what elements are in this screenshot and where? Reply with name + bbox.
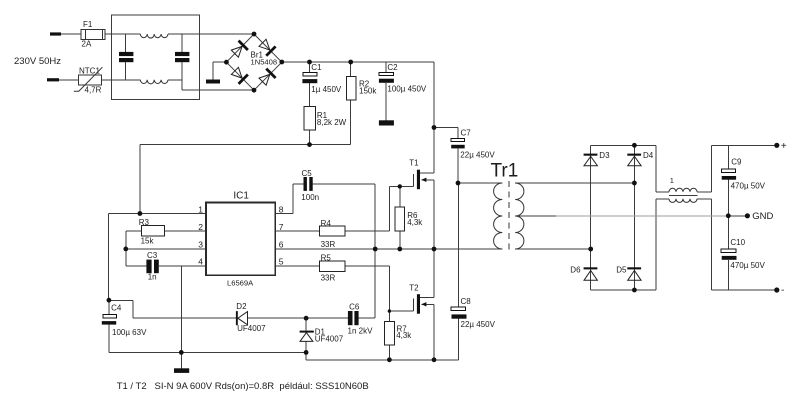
svg-text:C6: C6: [349, 303, 360, 312]
svg-text:230V 50Hz: 230V 50Hz: [14, 56, 61, 67]
node bridge right: [279, 60, 284, 65]
svg-text:1N5408: 1N5408: [251, 57, 278, 66]
wire primary gnd rail: [109, 351, 306, 353]
capacitor C2: [379, 72, 393, 75]
wire minus rail: [591, 289, 656, 291]
wire pin2 row: [165, 230, 206, 232]
wire plus rail: [591, 144, 656, 146]
wire C1 R1 branch: [309, 62, 311, 73]
wire center tap gray part: [556, 215, 728, 217]
wire mains bottom row: [59, 79, 78, 81]
wire secondary rect strings: [590, 145, 592, 290]
wire C4 stem: [108, 300, 110, 314]
svg-text:2A: 2A: [82, 40, 92, 49]
node midpoint: [432, 247, 437, 252]
diode bridge lower-left: [230, 66, 248, 84]
EMI filter box: [112, 15, 200, 100]
wire choke leads: [656, 191, 669, 193]
node gate R6: [398, 184, 402, 188]
wire pin6 row / half-bridge midpoint: [275, 248, 502, 250]
svg-text:8,2k 2W: 8,2k 2W: [317, 118, 347, 127]
fuse F1: [81, 30, 105, 40]
svg-text:L6569A: L6569A: [227, 278, 254, 287]
node pin6 C5 riser: [373, 247, 378, 252]
node Vcc R1: [307, 142, 312, 147]
svg-text:C9: C9: [731, 157, 742, 166]
resistor R7: [385, 321, 395, 345]
wire T2 drain source: [420, 296, 434, 298]
wire C10 stem: [727, 216, 729, 249]
wire gnd symbol stem: [180, 352, 182, 368]
node pin1: [138, 211, 143, 216]
wire center tap black part: [515, 215, 556, 217]
svg-text:6: 6: [279, 239, 284, 249]
wire pin3 row: [126, 248, 206, 250]
diode D2: [236, 311, 248, 325]
svg-text:100n: 100n: [301, 193, 319, 202]
transformer primary winding: [494, 183, 503, 249]
wire pin5 row: [275, 265, 319, 267]
wire pin1 row: [109, 213, 206, 215]
svg-text:R5: R5: [321, 254, 332, 263]
capacitor C1: [303, 73, 317, 76]
diode bridge upper-left: [230, 41, 248, 59]
svg-text:UF4007: UF4007: [237, 324, 266, 333]
svg-text:R4: R4: [321, 219, 332, 228]
inductor choke winding 2: [669, 199, 697, 203]
IC1 box: [206, 203, 275, 276]
svg-text:100µ 450V: 100µ 450V: [387, 85, 427, 94]
svg-text:15k: 15k: [141, 237, 155, 246]
ground bar mains: [206, 80, 220, 84]
svg-text:NTC1: NTC1: [79, 66, 100, 75]
node gnd row C9 C10: [726, 213, 731, 218]
wire R2 branch: [350, 62, 352, 76]
svg-text:150k: 150k: [359, 86, 377, 95]
node D3 string bottom row: [588, 247, 593, 252]
svg-text:33R: 33R: [321, 274, 336, 283]
svg-text:1: 1: [198, 205, 203, 215]
svg-text:C2: C2: [387, 63, 398, 72]
svg-text:4,3k: 4,3k: [396, 331, 412, 340]
svg-text:7: 7: [279, 222, 284, 232]
wire D1 string: [305, 318, 307, 330]
node gnd rail D1: [304, 350, 309, 355]
diode D1: [300, 331, 314, 342]
diode bridge upper-right: [258, 38, 276, 56]
inductor filter bottom: [140, 80, 168, 84]
wire T1 drain source: [420, 172, 434, 174]
wire T2 gate row: [389, 310, 413, 312]
capacitor X1: [119, 34, 133, 80]
node bridge bottom: [252, 88, 257, 93]
svg-text:1n: 1n: [148, 273, 157, 282]
svg-text:470µ 50V: 470µ 50V: [730, 261, 765, 270]
resistor R4: [320, 226, 345, 236]
svg-text:C4: C4: [111, 303, 122, 312]
wire C4 step to D2 row: [109, 299, 133, 301]
diode D6: [584, 267, 598, 280]
svg-text:GND: GND: [752, 211, 773, 222]
node C7 bottom: [456, 181, 461, 186]
wire C8 top stem: [457, 183, 459, 307]
svg-text:UF4007: UF4007: [315, 335, 344, 344]
wire bridge minus to bar: [213, 61, 227, 63]
svg-text:T2: T2: [409, 284, 419, 293]
resistor R6: [395, 207, 405, 231]
svg-text:5: 5: [279, 256, 284, 266]
node D4 plus rail: [632, 143, 637, 148]
wire gnd out: [728, 215, 747, 217]
svg-text:470µ 50V: 470µ 50V: [731, 181, 766, 190]
svg-text:D6: D6: [570, 265, 581, 274]
resistor R2: [347, 76, 357, 100]
capacitor C5: [304, 177, 307, 191]
node gnd rail T2: [432, 357, 437, 362]
capacitor X2: [175, 34, 189, 80]
svg-text:33R: 33R: [321, 240, 336, 249]
node gnd rail C4: [179, 350, 184, 355]
wire Vcc row: [140, 144, 351, 146]
resistor R1: [304, 107, 316, 130]
node gnd rail R7: [387, 357, 392, 362]
svg-text:C7: C7: [461, 129, 472, 138]
resistor R3: [141, 225, 164, 236]
transformer secondary winding: [515, 183, 524, 249]
wire choke core: [669, 194, 697, 196]
wire C7 feed: [434, 127, 458, 129]
svg-text:D2: D2: [236, 302, 247, 311]
bridge Br1 frame: [226, 34, 281, 90]
terminal N: [47, 78, 59, 81]
node T2 gate R7: [388, 309, 391, 312]
node C1: [307, 60, 312, 65]
wire pin4 row: [126, 265, 147, 267]
capacitor C10: [721, 249, 736, 252]
svg-text:1n 2kV: 1n 2kV: [348, 326, 374, 335]
svg-text:3: 3: [198, 239, 203, 249]
svg-text:100µ 63V: 100µ 63V: [112, 328, 147, 337]
diode bridge lower-right: [258, 69, 276, 87]
wire C2 branch: [385, 62, 387, 72]
svg-text:C10: C10: [730, 238, 745, 247]
diode D4: [627, 154, 641, 166]
node D1 top: [304, 316, 309, 321]
inductor filter top: [140, 34, 168, 38]
wire T1 gate row: [390, 185, 414, 187]
wire C9 stem: [727, 145, 729, 169]
capacitor C4: [103, 314, 117, 318]
svg-text:IC1: IC1: [233, 191, 249, 202]
wire pin7 row: [275, 230, 319, 232]
svg-text:D5: D5: [616, 265, 627, 274]
capacitor C8: [451, 307, 466, 311]
svg-text:22µ 450V: 22µ 450V: [461, 320, 496, 329]
inductor choke winding 1: [669, 188, 697, 192]
svg-text:T1 / T2 SI-N 9A 600V Rds(on): T1 / T2 SI-N 9A 600V Rds(on)=0.8R példáu…: [117, 381, 369, 392]
svg-text:2: 2: [198, 222, 203, 232]
node terminal plus: [774, 143, 779, 148]
svg-text:F1: F1: [83, 20, 93, 29]
node bridge top: [252, 32, 257, 37]
ground symbol: [174, 368, 189, 373]
node terminal GND: [745, 213, 750, 218]
svg-text:Tr1: Tr1: [491, 161, 519, 182]
svg-text:C3: C3: [147, 251, 158, 260]
capacitor C3: [146, 260, 151, 274]
node bridge left: [224, 60, 229, 65]
capacitor C7: [451, 138, 465, 141]
thermistor NTC1: [74, 67, 103, 91]
svg-text:8: 8: [279, 205, 284, 215]
transistor T1: [414, 170, 427, 190]
node C4 top: [107, 298, 112, 303]
svg-text:1µ 450V: 1µ 450V: [311, 85, 342, 94]
terminal L: [50, 32, 61, 35]
svg-text:4,7R: 4,7R: [85, 86, 102, 95]
transformer core: [508, 181, 510, 251]
wire HV bus rail: [282, 61, 434, 63]
node pin3 R3: [123, 247, 128, 252]
node D5 minus rail: [632, 288, 637, 293]
svg-text:+: +: [781, 141, 787, 152]
node D4 string top row: [632, 181, 637, 186]
capacitor C6: [348, 311, 353, 325]
node pin6 R6: [397, 247, 402, 252]
wire pin8 bootstrap riser: [275, 213, 293, 215]
capacitor C9: [721, 169, 735, 172]
wire transformer primary leads: [458, 182, 502, 184]
wire mains top row: [61, 33, 81, 35]
svg-text:-: -: [781, 285, 784, 296]
node HV bus C7: [432, 125, 437, 130]
svg-text:4: 4: [198, 256, 203, 266]
wire secondary bottom row: [515, 248, 591, 250]
svg-text:C1: C1: [311, 63, 322, 72]
svg-text:1: 1: [670, 176, 674, 185]
filter line inside top: [112, 33, 141, 35]
svg-text:D4: D4: [643, 151, 654, 160]
svg-text:C5: C5: [302, 169, 313, 178]
svg-text:22µ 450V: 22µ 450V: [460, 151, 495, 160]
transistor T2: [414, 294, 427, 314]
node R2: [348, 60, 353, 65]
filter line inside bottom: [112, 79, 141, 81]
svg-text:D3: D3: [599, 151, 610, 160]
diode D3: [584, 154, 598, 166]
resistor R5: [320, 261, 345, 271]
node terminal minus: [774, 287, 779, 292]
diode D5: [627, 267, 641, 280]
svg-text:4,3k: 4,3k: [407, 218, 423, 227]
svg-text:C8: C8: [461, 297, 472, 306]
svg-text:R3: R3: [139, 218, 150, 227]
wire secondary top row: [515, 182, 634, 184]
svg-text:T1: T1: [409, 159, 419, 168]
